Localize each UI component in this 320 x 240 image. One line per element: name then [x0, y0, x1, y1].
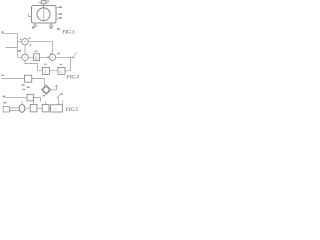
- svg-text:FIG.3: FIG.3: [61, 31, 75, 36]
- svg-text:K: K: [35, 55, 38, 60]
- svg-text:.: .: [29, 95, 30, 100]
- svg-text:FIG.4: FIG.4: [66, 76, 80, 81]
- svg-text:FIG.5: FIG.5: [65, 108, 79, 113]
- svg-text:1: 1: [44, 69, 46, 74]
- svg-text:.: .: [27, 77, 28, 82]
